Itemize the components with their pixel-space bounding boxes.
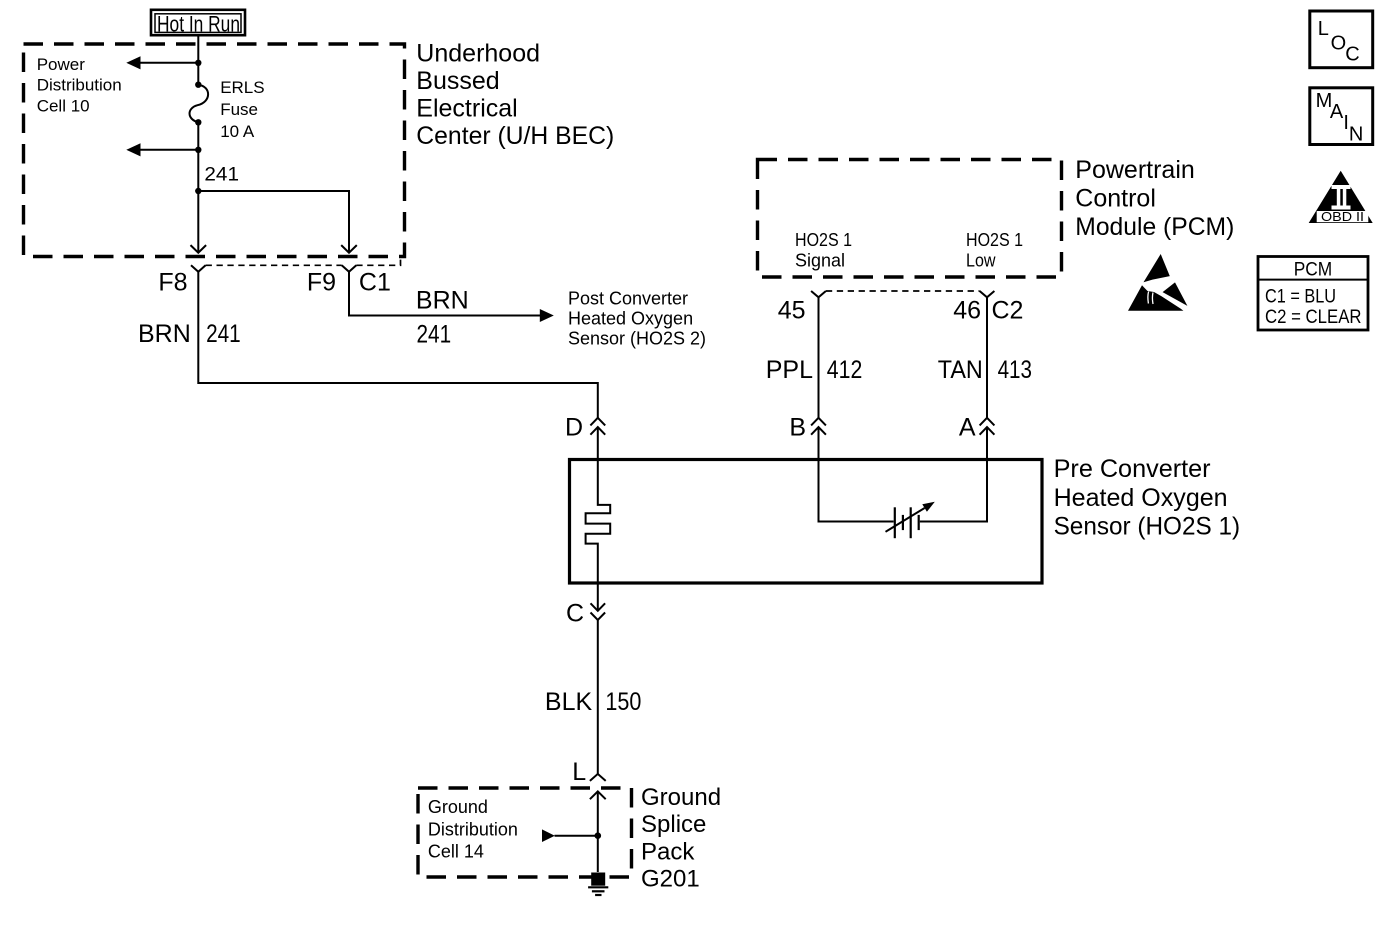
svg-text:46: 46 [953,297,981,325]
svg-text:BRN: BRN [138,320,191,348]
svg-text:Control: Control [1075,185,1156,213]
svg-text:Low: Low [966,250,996,270]
svg-text:45: 45 [778,297,806,325]
svg-text:A: A [959,414,976,442]
svg-text:Post Converter: Post Converter [568,289,688,309]
svg-text:C2: C2 [992,297,1024,325]
svg-text:D: D [565,414,583,442]
svg-text:Fuse: Fuse [220,100,258,119]
svg-text:Cell 10: Cell 10 [37,97,90,116]
svg-text:HO2S 1: HO2S 1 [795,230,852,250]
svg-text:PCM: PCM [1294,259,1333,280]
svg-text:F9: F9 [307,269,336,297]
svg-text:G201: G201 [641,865,700,892]
svg-text:ERLS: ERLS [220,78,264,97]
svg-text:Distribution: Distribution [37,76,122,95]
svg-text:241: 241 [417,320,452,348]
svg-text:Hot In Run: Hot In Run [157,12,240,37]
svg-text:TAN: TAN [938,356,983,384]
svg-text:412: 412 [827,356,863,384]
svg-text:HO2S 1: HO2S 1 [966,230,1023,250]
svg-text:C1 = BLU: C1 = BLU [1265,287,1336,308]
svg-text:Bussed: Bussed [416,67,499,95]
svg-text:Splice: Splice [641,811,706,838]
svg-text:Heated Oxygen: Heated Oxygen [1054,484,1228,512]
svg-text:C: C [1345,44,1359,66]
svg-text:Pre Converter: Pre Converter [1054,455,1211,483]
svg-text:Cell 14: Cell 14 [428,841,484,861]
svg-text:Ground: Ground [641,784,721,811]
svg-text:Electrical: Electrical [416,94,517,122]
svg-text:C2 = CLEAR: C2 = CLEAR [1265,307,1362,328]
svg-text:Heated Oxygen: Heated Oxygen [568,309,693,329]
svg-text:N: N [1349,123,1363,145]
svg-text:Power: Power [37,55,86,74]
svg-text:B: B [789,414,806,442]
svg-text:241: 241 [204,165,239,186]
svg-text:BRN: BRN [416,286,469,314]
svg-text:Ground: Ground [428,797,488,817]
svg-text:OBD II: OBD II [1321,210,1364,224]
svg-text:Sensor (HO2S 2): Sensor (HO2S 2) [568,329,706,349]
svg-text:C: C [566,600,584,628]
svg-text:Sensor (HO2S 1): Sensor (HO2S 1) [1054,513,1241,541]
svg-text:PPL: PPL [766,356,813,384]
svg-text:BLK: BLK [545,688,593,716]
svg-text:Underhood: Underhood [416,39,540,67]
svg-text:10 A: 10 A [220,122,255,141]
svg-text:Module (PCM): Module (PCM) [1075,213,1234,241]
svg-text:Powertrain: Powertrain [1075,156,1195,184]
svg-text:Distribution: Distribution [428,820,518,840]
svg-text:O: O [1331,33,1347,55]
svg-text:A: A [1330,101,1344,123]
svg-text:241: 241 [206,320,241,348]
svg-text:413: 413 [998,356,1032,384]
svg-text:150: 150 [605,688,641,716]
svg-text:Signal: Signal [795,250,845,270]
svg-text:F8: F8 [158,269,187,297]
svg-text:L: L [572,758,586,786]
svg-text:C1: C1 [359,269,391,297]
svg-text:Center (U/H BEC): Center (U/H BEC) [416,122,614,150]
svg-text:Pack: Pack [641,838,695,865]
svg-text:L: L [1318,18,1329,40]
